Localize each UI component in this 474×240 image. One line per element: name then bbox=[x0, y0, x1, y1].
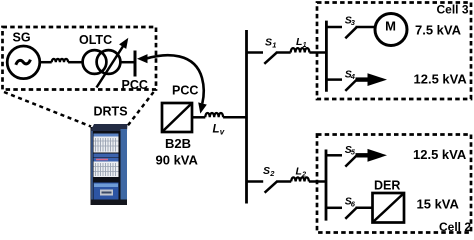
rack left rail bbox=[91, 131, 93, 200]
svg-text:B2B: B2B bbox=[165, 136, 191, 151]
module divider bbox=[94, 154, 119, 158]
wire B2B to Lv coil bbox=[192, 116, 205, 119]
dashed box Cell 2 bbox=[317, 135, 471, 233]
inductor L2 bbox=[291, 177, 309, 181]
converter B2B box bbox=[162, 103, 192, 132]
inductor Lv bbox=[205, 113, 223, 117]
wire SG to series coil bbox=[40, 61, 52, 64]
svg-text:12.5 kVA: 12.5 kVA bbox=[414, 71, 468, 86]
wire S1 to L1 bbox=[276, 51, 291, 54]
svg-text:DER: DER bbox=[374, 179, 400, 193]
wire S3 to motor bbox=[356, 26, 377, 29]
curved arrow PCC bar to converter wire (left head) bbox=[137, 54, 148, 63]
module 3 (blue) bbox=[94, 183, 119, 201]
OLTC tap arrow bbox=[97, 46, 124, 88]
Cell 2 bus bbox=[325, 150, 328, 221]
inductor L1 bbox=[291, 48, 310, 52]
switch S5 wire bbox=[326, 154, 342, 157]
converter DER box bbox=[373, 193, 405, 223]
svg-text:7.5 kVA: 7.5 kVA bbox=[415, 23, 462, 38]
switch S6 wire bbox=[326, 207, 342, 210]
PCC bar node bbox=[134, 51, 137, 77]
DER diagonal bbox=[373, 194, 404, 223]
svg-text:L: L bbox=[296, 36, 302, 48]
svg-text:v: v bbox=[220, 128, 225, 137]
svg-text:OLTC: OLTC bbox=[79, 33, 112, 47]
motor M circle bbox=[375, 14, 407, 46]
switch S4 wire bbox=[326, 78, 342, 81]
wire S6 to DER bbox=[356, 207, 373, 210]
dashed box Cell 3 bbox=[317, 3, 471, 100]
switch S2 blade bbox=[265, 182, 277, 193]
wire L2 into Cell 2 bbox=[309, 180, 326, 183]
svg-text:2: 2 bbox=[301, 172, 306, 179]
svg-text:L: L bbox=[213, 124, 220, 136]
B2B diagonal bbox=[163, 104, 192, 132]
svg-text:SG: SG bbox=[13, 31, 31, 45]
svg-text:90 kVA: 90 kVA bbox=[156, 153, 199, 168]
rack front frame bbox=[92, 131, 121, 200]
series inductor between SG and OLTC bbox=[52, 59, 68, 62]
rack base bbox=[91, 200, 128, 206]
module 1 bbox=[94, 134, 119, 153]
dashed box: SG/OLTC detail callout bbox=[3, 27, 157, 90]
svg-text:1: 1 bbox=[303, 42, 307, 49]
Cell 3 bus bbox=[325, 21, 328, 92]
wire coil to OLTC bbox=[68, 61, 83, 64]
load arrow S5 bbox=[356, 153, 370, 157]
switch S2 wire from bus bbox=[247, 180, 264, 183]
svg-text:S: S bbox=[263, 165, 270, 177]
generator SG circle bbox=[7, 46, 40, 79]
wire L1 into Cell 3 bbox=[309, 51, 326, 54]
switch S5 blade bbox=[345, 156, 356, 167]
svg-text:4: 4 bbox=[350, 72, 356, 81]
svg-text:Cell 2: Cell 2 bbox=[439, 220, 471, 234]
svg-text:DRTS: DRTS bbox=[94, 105, 128, 119]
switch S3 wire bbox=[326, 26, 342, 29]
callout dashed line left bbox=[4, 92, 91, 127]
rack body bbox=[91, 127, 128, 205]
wire Lv to bus bbox=[223, 116, 246, 119]
DRTS rack cabinet bbox=[91, 124, 128, 205]
load arrow S4 bbox=[356, 77, 370, 81]
wire OLTC to PCC bar bbox=[120, 61, 134, 64]
callout dashed line right bbox=[126, 92, 154, 129]
rack top face bbox=[91, 124, 128, 131]
module 2 bbox=[94, 158, 119, 177]
svg-text:1: 1 bbox=[272, 41, 276, 50]
switch S3 blade bbox=[345, 27, 356, 38]
svg-text:Cell 3: Cell 3 bbox=[436, 3, 468, 17]
wire S2 to L2 bbox=[276, 180, 291, 183]
switch S4 blade bbox=[345, 80, 356, 91]
svg-text:PCC: PCC bbox=[172, 84, 198, 98]
svg-text:M: M bbox=[385, 19, 396, 34]
generator tilde bbox=[16, 60, 31, 65]
svg-text:12.5 kVA: 12.5 kVA bbox=[413, 147, 467, 162]
svg-text:2: 2 bbox=[269, 169, 275, 178]
switch S1 wire from bus bbox=[247, 51, 264, 54]
OLTC transformer circles bbox=[83, 50, 107, 74]
switch S6 blade bbox=[345, 208, 356, 219]
svg-text:15 kVA: 15 kVA bbox=[417, 197, 460, 212]
main bus bbox=[245, 30, 248, 204]
curved arrow arc bbox=[147, 55, 204, 103]
svg-text:PCC: PCC bbox=[122, 78, 148, 92]
svg-text:S: S bbox=[265, 37, 272, 49]
switch S1 blade bbox=[264, 53, 276, 64]
curved arrow bottom head bbox=[198, 102, 207, 113]
rack right side bbox=[121, 129, 128, 200]
svg-text:L: L bbox=[296, 166, 302, 178]
